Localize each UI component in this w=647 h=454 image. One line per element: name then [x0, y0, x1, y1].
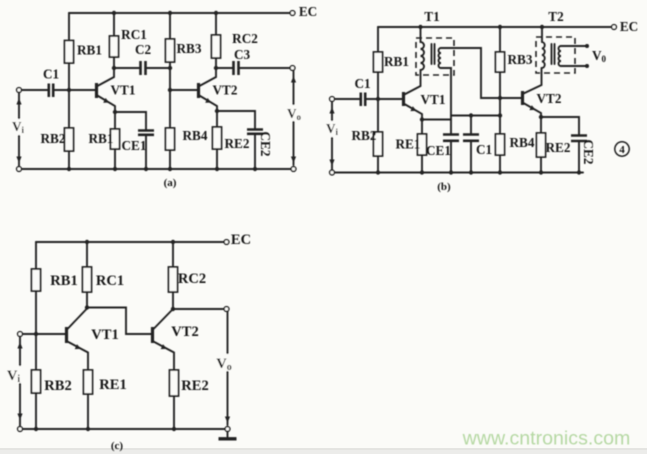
output terminal dots (b): [585, 44, 589, 48]
wire C1 to VT1 base: [54, 89, 95, 91]
node: VT2 collector junction: [214, 66, 218, 70]
input terminal (c): [18, 332, 23, 337]
node: VT2 base junction: [168, 88, 172, 92]
wire rail to RC2 (c): [172, 242, 174, 267]
node: VT2 emitter junction: [215, 109, 219, 113]
svg-text:VT1: VT1: [421, 92, 446, 107]
node: VT1 emitter junction: [113, 110, 117, 114]
resistor RE1 (c): [84, 370, 93, 394]
node: rail-RB2 (c): [34, 427, 38, 431]
T2 primary winding: [542, 42, 545, 68]
resistor RE1: [114, 112, 116, 129]
resistor RB1 (b): [374, 52, 383, 72]
node: rail-RB3: [498, 25, 502, 29]
svg-text:RB2: RB2: [41, 131, 66, 146]
resistor RC2 (c): [169, 267, 178, 292]
wire rail to RB3: [169, 13, 171, 39]
svg-text:RB1: RB1: [384, 54, 409, 69]
capacitor CE2 branch wire: [217, 111, 255, 129]
svg-text:RE2: RE2: [546, 140, 571, 155]
wire RB3 to VT2 base node: [169, 62, 171, 128]
svg-text:VT1: VT1: [111, 83, 136, 98]
node: VT1 emitter junction (b): [420, 117, 424, 121]
svg-text:RB2: RB2: [352, 128, 377, 143]
ground terminal left (c): [18, 427, 23, 432]
node: VT1 collector junction (c): [85, 305, 89, 309]
resistor RB2 (c): [32, 370, 41, 393]
svg-text:C1: C1: [43, 67, 59, 82]
wire rail to RB1: [377, 27, 379, 52]
svg-text:4: 4: [619, 144, 625, 156]
resistor RE1 (b): [421, 120, 423, 135]
wire base node to RB2: [377, 99, 379, 132]
EC terminal (c): [224, 240, 229, 245]
svg-text:RE1: RE1: [99, 377, 126, 393]
capacitor C1 (b mid): [470, 116, 472, 135]
svg-text:www.cntronics.com: www.cntronics.com: [462, 428, 631, 450]
wire rail to RC1: [113, 13, 115, 36]
transistor VT1 (b): [402, 92, 405, 106]
transistor VT2 (b): [521, 91, 524, 105]
wire collector to C3: [216, 67, 233, 69]
node: rail-CE1: [144, 167, 148, 171]
svg-text:RE1: RE1: [396, 137, 421, 152]
ground rail (c): [23, 428, 226, 430]
resistor RE2 (c): [170, 370, 179, 396]
wire RB2 to ground rail: [377, 156, 379, 173]
resistor RB4: [166, 128, 175, 150]
capacitor CE1 (b): [450, 116, 452, 135]
node: VT1 collector junction: [112, 66, 116, 70]
T1 secondary bottom lead: [441, 68, 451, 116]
resistor RC1 (c): [83, 267, 92, 292]
node: rail-RE2 (b): [539, 170, 543, 174]
node: rail-RE1: [113, 167, 117, 171]
wire RC2 to collector node (c): [172, 292, 174, 309]
output wire to terminal (c): [173, 308, 224, 310]
wire CE1 to ground rail: [145, 135, 147, 169]
svg-text:RB1: RB1: [89, 131, 114, 146]
node: rail-RB4 (b): [498, 170, 502, 174]
wire RB4 to ground rail: [169, 150, 171, 169]
wire RB1 to base node (c): [35, 291, 37, 334]
T1 secondary top lead to VT2 base: [441, 48, 498, 98]
node: rail-RE2 (c): [172, 427, 176, 431]
node: rail-RC1 (c): [85, 240, 89, 244]
node: rail-C1 (b): [469, 170, 473, 174]
wire RB3 to VT2 base node: [499, 72, 501, 134]
node: VT1 base junction (c): [34, 332, 38, 336]
node: rail-RB2 (b): [376, 170, 380, 174]
capacitor CE2: [247, 130, 263, 134]
svg-text:RB2: RB2: [44, 378, 71, 394]
ground rail (b): [335, 172, 584, 174]
svg-text:RB4: RB4: [510, 135, 535, 150]
wire secondary-bottom node to RB4 node: [451, 115, 500, 117]
input terminal (b): [330, 97, 335, 102]
resistor RB3 (b): [496, 52, 505, 72]
svg-text:RC2: RC2: [232, 31, 258, 46]
ground rail (a): [22, 168, 292, 170]
capacitor CE2 (b): [543, 117, 579, 135]
wire base node to RB2 (c): [35, 334, 37, 370]
T1 primary feed wire: [420, 27, 422, 42]
Vo measurement line (a): [293, 71, 295, 165]
Vo measurement line (c): [227, 312, 229, 426]
circled number 4: [615, 142, 629, 156]
svg-text:(c): (c): [111, 440, 124, 452]
wire rail to RC2: [215, 13, 217, 35]
resistor RE2 (b): [540, 117, 542, 133]
wire rail to RB1 (c): [35, 242, 37, 269]
svg-text:(a): (a): [164, 177, 177, 189]
Vi measurement line (a): [18, 93, 20, 166]
svg-text:VT1: VT1: [91, 327, 118, 343]
transistor VT2: [197, 83, 200, 98]
resistor RB1: [65, 41, 74, 64]
capacitor C1: [49, 84, 53, 98]
wire base node to RB2: [68, 90, 70, 128]
T2 shield dashed box: [536, 37, 575, 73]
node: rail-RC2 (c): [171, 240, 175, 244]
resistor RE2: [216, 111, 218, 127]
node: rail-RB2: [67, 167, 71, 171]
EC terminal (a): [290, 11, 295, 16]
svg-text:RC1: RC1: [121, 27, 147, 42]
wire base node to VT2: [170, 89, 197, 91]
Vi measurement line (c): [19, 337, 21, 426]
svg-text:RB1: RB1: [77, 43, 102, 58]
capacitor C2: [141, 61, 146, 75]
svg-text:C3: C3: [234, 47, 251, 62]
wire C3 to output terminal: [239, 67, 290, 69]
node: rail-CE2: [253, 167, 257, 171]
node: VT2 collector junction (c): [171, 307, 175, 311]
svg-text:EC: EC: [620, 19, 638, 34]
wire RB1 to base node: [68, 63, 70, 90]
output terminal (c): [224, 307, 229, 312]
node: rail-RE1 (c): [86, 427, 90, 431]
node: rail-T1 primary: [418, 25, 422, 29]
T2 primary feed wire: [541, 27, 543, 42]
svg-text:VT2: VT2: [537, 91, 562, 106]
wire RB2 to ground rail (c): [35, 393, 37, 429]
node: rail-RC1 junction: [112, 11, 116, 15]
ground rail terminal right (a): [291, 167, 296, 172]
svg-text:RB1: RB1: [50, 273, 77, 289]
resistor RC2: [212, 35, 221, 58]
svg-text:VT2: VT2: [213, 83, 238, 98]
transistor VT1 (c): [65, 327, 68, 343]
ground terminal right (c): [225, 427, 230, 432]
resistor RB2 (b): [374, 132, 383, 156]
resistor RB2: [65, 128, 74, 151]
node: rail-RB3 junction: [168, 11, 172, 15]
capacitor C1 (b input): [361, 93, 365, 107]
node: rail-RC2 junction: [214, 11, 218, 15]
svg-text:RB4: RB4: [183, 128, 208, 143]
svg-text:C1: C1: [354, 76, 370, 91]
ground symbol (c): [227, 432, 229, 438]
wire C1 to VT1 base: [366, 98, 402, 100]
transistor VT1: [95, 83, 98, 98]
node: RB4 top junction: [498, 113, 502, 117]
VT1 emitter wire to CE1: [424, 119, 451, 121]
wire CE2 to ground rail: [254, 134, 256, 169]
wire base node to VT2: [500, 97, 521, 99]
svg-text:T2: T2: [548, 9, 564, 24]
EC supply rail (a): [69, 12, 290, 14]
wire input to VT1 base (c): [23, 333, 66, 335]
EC terminal (b): [612, 25, 617, 30]
svg-text:C2: C2: [135, 42, 152, 57]
wire collector to C2: [114, 67, 140, 69]
node: rail-T2 primary: [540, 25, 544, 29]
svg-text:C1: C1: [476, 142, 492, 157]
node: rail-RB4: [168, 167, 172, 171]
svg-text:RC2: RC2: [178, 271, 206, 287]
wire rail to RB1: [68, 13, 70, 41]
T2 secondary output leads: [561, 46, 586, 66]
resistor RB3: [166, 39, 175, 62]
capacitor CE1 branch wire: [115, 112, 146, 130]
svg-text:CE2: CE2: [581, 140, 596, 165]
svg-text:VT2: VT2: [171, 324, 198, 340]
wire C2 to RB3 node: [146, 67, 170, 69]
svg-text:RB3: RB3: [177, 41, 202, 56]
T1 shield dashed box: [416, 38, 454, 75]
T2 secondary winding: [559, 46, 562, 66]
resistor RB1 (c): [32, 269, 41, 291]
T1 primary winding: [421, 42, 425, 70]
node: VT2 emitter junction (b): [539, 115, 543, 119]
svg-text:EC: EC: [231, 232, 251, 248]
EC supply rail (c): [36, 241, 224, 243]
svg-text:(b): (b): [437, 181, 451, 193]
node: base divider junction VT1: [67, 88, 71, 92]
node: rail-RE2: [215, 167, 219, 171]
EC supply rail (b): [378, 26, 612, 28]
svg-text:CE1: CE1: [122, 138, 147, 153]
coupling wire VT1 collector to VT2 base: [87, 308, 151, 335]
transistor VT2 (c): [151, 327, 154, 343]
wire rail to RB3: [499, 27, 501, 52]
Vi measurement line (b): [331, 102, 333, 170]
output terminal (a): [290, 66, 295, 71]
wire RB2 to ground rail: [68, 151, 70, 169]
resistor RB4 (b): [496, 134, 505, 155]
T1 secondary winding: [439, 48, 441, 68]
wire input to C1: [22, 89, 49, 91]
node: rail-RE1 (b): [420, 170, 424, 174]
node: C2 coupling junction: [168, 66, 172, 70]
wire rail to RC1 (c): [86, 242, 88, 267]
wire RC1 to collector node: [113, 57, 115, 68]
ground rail terminal left (a): [17, 167, 22, 172]
node: VT1 base junction (b): [376, 97, 380, 101]
resistor RC1: [110, 36, 119, 57]
ground terminal left (b): [330, 170, 335, 175]
T1 core: [432, 44, 435, 64]
node: rail-CE2 (b): [577, 170, 581, 174]
wire RB1 to base node: [377, 72, 379, 99]
wire input to C1: [335, 98, 361, 100]
capacitor CE1: [138, 131, 154, 135]
node: rail-CE1 (b): [449, 170, 453, 174]
svg-text:RE2: RE2: [225, 136, 250, 151]
input terminal (a): [17, 88, 22, 93]
wire RC2 to collector node: [215, 58, 217, 68]
node: C1 mid junction: [469, 113, 473, 117]
wire RC1 to collector node (c): [86, 292, 88, 308]
svg-text:RE2: RE2: [181, 378, 208, 394]
svg-text:CE2: CE2: [258, 132, 273, 157]
svg-text:CE1: CE1: [426, 143, 451, 158]
svg-text:EC: EC: [299, 4, 317, 19]
svg-text:RC1: RC1: [96, 273, 124, 289]
svg-text:T1: T1: [424, 9, 439, 24]
svg-text:RB3: RB3: [508, 52, 533, 67]
node: VT2 base junction (b): [498, 96, 502, 100]
capacitor C3: [234, 61, 239, 75]
T2 core: [552, 44, 555, 64]
